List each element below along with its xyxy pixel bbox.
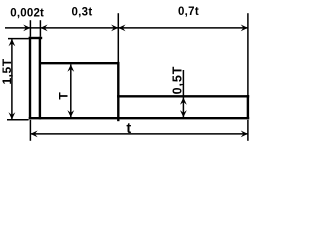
arrow left at x=118 (0,7t left) — [118, 25, 125, 32]
arrow right at x=30 (0,002t left) — [23, 25, 30, 32]
arrow right at x=247.9 (0,7t right) — [241, 25, 248, 32]
svg-text:0,3t: 0,3t — [71, 6, 92, 18]
extension line x=247.9 top — [247, 13, 249, 95]
step top T level — [40, 62, 118, 64]
top dimension line — [5, 27, 248, 29]
arrow left at x=30 (t left) — [30, 131, 37, 138]
arrow up 0,5T — [180, 98, 187, 105]
arrow up T — [67, 65, 74, 72]
dimension line T — [70, 65, 72, 118]
arrow right at x=247.9 (t right) — [241, 131, 248, 138]
bottom extension line x=247.9 — [247, 120, 249, 141]
right edge — [247, 95, 249, 119]
extension line x=118 top — [117, 13, 119, 62]
svg-text:1,5T: 1,5T — [0, 58, 14, 84]
baseline — [29, 117, 250, 119]
extension line x=30 top — [29, 20, 31, 37]
svg-text:0,5T: 0,5T — [170, 66, 184, 95]
pulse top cap — [29, 37, 43, 39]
extension line x=40 top — [39, 20, 41, 37]
dimension line 1,5T — [11, 39, 13, 119]
pulse right edge — [39, 37, 41, 120]
arrow up 1,5T — [9, 39, 16, 46]
svg-text:0,002t: 0,002t — [10, 7, 44, 19]
bottom extension line x=30 — [29, 120, 31, 141]
bottom dimension line t — [30, 133, 248, 135]
arrow down 0,5T — [180, 110, 187, 117]
pulse left edge — [29, 37, 31, 120]
svg-text:t: t — [126, 121, 131, 137]
extension of pulse top to left — [8, 38, 29, 40]
arrow left at x=40 (0,002t right / 0,3t left) — [40, 25, 47, 32]
arrow right at x=118 (0,3t right) — [111, 25, 118, 32]
arrow down T — [67, 110, 74, 117]
extension of baseline to left — [7, 119, 29, 121]
dimension line 0,5T — [182, 70, 184, 117]
svg-text:T: T — [56, 92, 70, 100]
step edge at 0.3t — [117, 62, 119, 121]
arrow down 1,5T — [9, 112, 16, 119]
low step top 0.5T level — [117, 95, 249, 97]
svg-text:0,7t: 0,7t — [178, 6, 199, 18]
